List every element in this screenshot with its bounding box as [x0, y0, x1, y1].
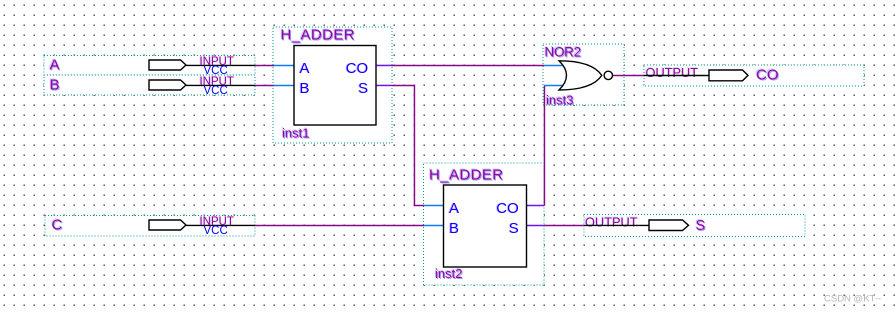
svg-text:CSDN @KT--: CSDN @KT-- [824, 294, 881, 305]
svg-text:VCC: VCC [204, 225, 228, 237]
svg-text:inst3: inst3 [546, 93, 573, 108]
svg-text:A: A [449, 200, 459, 217]
svg-text:C: C [52, 217, 63, 234]
svg-text:A: A [300, 60, 310, 77]
svg-text:H_ADDER: H_ADDER [281, 27, 355, 44]
svg-text:A: A [50, 57, 60, 74]
svg-text:B: B [449, 220, 459, 237]
svg-text:OUTPUT: OUTPUT [646, 65, 699, 80]
svg-text:B: B [50, 77, 60, 94]
svg-text:NOR2: NOR2 [545, 45, 581, 60]
svg-text:VCC: VCC [204, 85, 228, 97]
svg-text:OUTPUT: OUTPUT [585, 214, 638, 229]
svg-text:H_ADDER: H_ADDER [429, 167, 503, 184]
svg-text:S: S [358, 80, 368, 97]
svg-text:inst2: inst2 [435, 266, 462, 281]
svg-text:B: B [300, 80, 310, 97]
svg-text:inst1: inst1 [282, 126, 309, 141]
svg-text:S: S [696, 218, 706, 234]
svg-text:CO: CO [346, 60, 369, 77]
svg-text:S: S [509, 220, 519, 237]
svg-text:CO: CO [756, 67, 779, 84]
svg-text:CO: CO [496, 200, 519, 217]
